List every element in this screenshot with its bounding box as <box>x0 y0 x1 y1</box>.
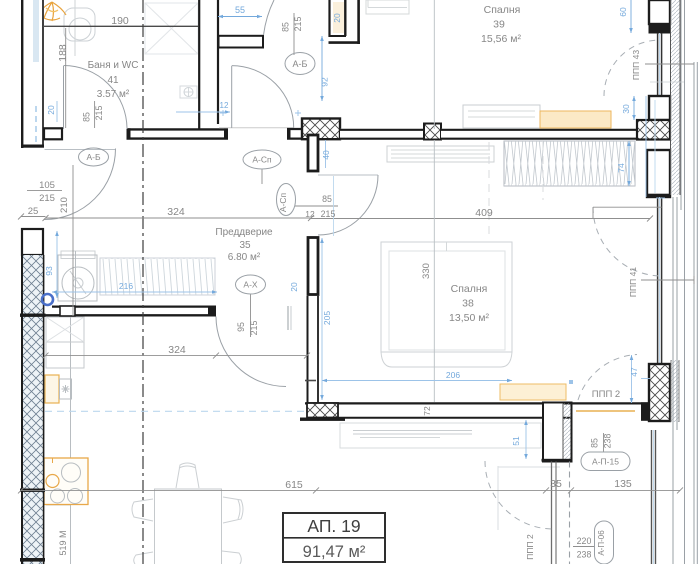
svg-text:А-Сп: А-Сп <box>278 192 288 212</box>
crosshatch column at x302 <box>302 119 340 140</box>
ellipse А-Сп vertical <box>277 184 296 216</box>
svg-text:85: 85 <box>82 112 92 122</box>
bedroom38 wardrobe outline <box>504 141 635 186</box>
A-Sp leader <box>261 169 263 184</box>
dim 330 construction line <box>433 0 435 129</box>
blue door viewer symbol <box>42 294 53 305</box>
bedroom39 dresser bottom <box>463 105 540 128</box>
svg-text:324: 324 <box>167 206 185 218</box>
blue dim 205 <box>321 238 323 400</box>
blue dim 93 <box>56 231 58 298</box>
chair right <box>223 497 243 523</box>
corridor wall x198-219 <box>198 0 219 129</box>
utility shelf <box>61 251 95 259</box>
svg-text:3.57 м²: 3.57 м² <box>97 89 130 100</box>
threshold line across door B opening <box>219 127 294 129</box>
blue dim 216 utility <box>52 291 217 293</box>
blue dim 20 top-left of bath door <box>56 101 58 122</box>
svg-text:20: 20 <box>46 105 56 115</box>
svg-text:95: 95 <box>236 322 246 332</box>
living corner faint lines <box>497 466 499 530</box>
tag line 85/238 <box>603 433 605 452</box>
svg-text:190: 190 <box>111 15 129 27</box>
bathroom door leaf + arc <box>63 66 65 129</box>
orange flower top-left <box>40 2 66 21</box>
svg-text:330: 330 <box>421 263 432 279</box>
blue dashed utility line <box>45 410 306 412</box>
svg-text:Спалня: Спалня <box>484 4 521 16</box>
right bay: crosshatch block bottom <box>649 364 670 421</box>
dim 409 line <box>311 218 650 220</box>
utility grille <box>100 258 215 295</box>
dim 188 line <box>65 28 67 128</box>
vent shaft X-box <box>145 3 198 54</box>
svg-text:205: 205 <box>322 311 332 325</box>
dim 324 #1 line <box>46 217 312 219</box>
bedroom38 bed <box>381 242 512 352</box>
svg-text:215: 215 <box>321 209 336 219</box>
long wall mid segment <box>340 129 425 140</box>
svg-text:206: 206 <box>446 370 460 380</box>
bedroom39 radiator orange <box>540 111 611 128</box>
svg-text:238: 238 <box>603 434 613 449</box>
kitchen counter line <box>75 251 77 305</box>
blue window dims right bay <box>645 96 647 197</box>
tag fraction 85/215 door C <box>295 205 338 207</box>
L-wall top corridor right <box>329 0 361 44</box>
svg-text:ППП 2: ППП 2 <box>592 389 620 400</box>
bedroom39 desk top <box>366 0 409 14</box>
right bay: wall block bedroom38 top <box>647 150 670 197</box>
bedroom38 desk <box>387 146 494 162</box>
svg-text:215: 215 <box>94 106 104 121</box>
blue dim 60 <box>630 0 632 33</box>
svg-text:215: 215 <box>293 17 303 32</box>
svg-text:ППП 43: ППП 43 <box>631 50 641 80</box>
svg-text:72: 72 <box>422 406 432 416</box>
dim 615 / 35 / 135 line <box>21 489 680 491</box>
left exterior crosshatch wall <box>20 255 46 564</box>
svg-text:12: 12 <box>305 209 315 219</box>
dim 210 line <box>72 165 74 316</box>
chair left <box>132 499 153 521</box>
svg-text:60: 60 <box>618 7 628 17</box>
chair top <box>176 463 199 488</box>
tag line 85/215 top <box>293 13 295 55</box>
ellipse А-Б #2 <box>79 148 109 166</box>
kitchen sink/stove unit <box>44 458 88 505</box>
upper door frame wall x218-264 <box>219 36 264 48</box>
svg-text:85: 85 <box>322 194 332 204</box>
svg-text:12: 12 <box>220 101 229 110</box>
svg-text:38: 38 <box>462 298 474 310</box>
right bay: black bar <box>649 24 671 34</box>
svg-text:А-Б: А-Б <box>86 152 101 162</box>
svg-text:215: 215 <box>249 321 259 336</box>
svg-text:85: 85 <box>281 22 291 32</box>
blue dim 40 <box>325 140 327 168</box>
window bottom-right living <box>652 430 656 564</box>
blue dimension numbers <box>44 5 639 446</box>
door arcs <box>45 0 379 387</box>
svg-text:Спалня: Спалня <box>451 283 488 295</box>
blue dim 74 <box>628 141 630 186</box>
ellipse А-П-15 <box>581 452 630 471</box>
svg-text:20: 20 <box>332 13 342 23</box>
svg-text:210: 210 <box>59 197 70 213</box>
svg-text:6.80 м²: 6.80 м² <box>228 252 261 263</box>
svg-text:А-Б: А-Б <box>293 59 308 69</box>
short line right top <box>650 81 684 83</box>
lower-right wall block <box>542 403 573 462</box>
L-wall orange column fill <box>333 2 346 33</box>
ellipse А-Б #1 <box>79 53 631 564</box>
svg-text:91,47 м²: 91,47 м² <box>303 543 366 561</box>
right bay: fine hatch strips beside blocks <box>671 360 679 422</box>
svg-text:А-П-15: А-П-15 <box>592 457 619 467</box>
svg-text:92: 92 <box>320 77 330 87</box>
balcony door ППП2 dashed swing <box>578 355 637 401</box>
svg-text:85: 85 <box>590 438 600 448</box>
dining table <box>155 489 222 564</box>
interior wall x307 stub A (black) <box>308 135 318 171</box>
corridor top door B leaf + arc <box>231 66 233 128</box>
svg-text:Преддверие: Преддверие <box>215 227 273 238</box>
svg-text:25: 25 <box>28 206 39 217</box>
wall below block thin <box>552 462 570 564</box>
door tags gray <box>82 17 642 560</box>
blue dimension lines <box>42 0 665 459</box>
svg-text:35: 35 <box>550 478 562 490</box>
blue dot near radiator <box>569 380 573 384</box>
apartment label box <box>283 513 385 562</box>
tag fraction 105/215 <box>27 190 62 192</box>
blue dim 12 corridor <box>176 111 230 113</box>
svg-text:47: 47 <box>629 367 639 377</box>
long wall right segment <box>441 129 637 140</box>
right bay: wall block top <box>649 0 670 24</box>
ellipse А-Х <box>236 275 266 294</box>
svg-text:188: 188 <box>57 44 69 62</box>
right bay: wall block mid <box>649 96 670 120</box>
leader ППП41 <box>641 279 694 281</box>
svg-text:39: 39 <box>493 19 505 31</box>
crosshatch block south wall left <box>300 403 345 421</box>
tag line 85/215 bath <box>94 101 96 128</box>
svg-text:615: 615 <box>285 479 303 491</box>
blue dim 92 <box>321 36 323 101</box>
washing machine <box>58 255 97 301</box>
dim 324 #2 line <box>46 355 308 357</box>
left exterior wall upper block <box>21 0 44 148</box>
blue dim 206 bed <box>322 380 512 382</box>
kitchen cabinet <box>46 317 84 368</box>
top small arc A <box>264 0 275 35</box>
door C leaf + arc <box>318 174 378 176</box>
orange kitchen tall unit <box>45 375 59 403</box>
blue dim 47 <box>631 355 633 403</box>
svg-text:А-Х: А-Х <box>243 280 258 290</box>
south wall band living/bedroom38 <box>305 402 649 419</box>
svg-text:324: 324 <box>168 344 186 356</box>
long wall segment right of door B <box>287 128 311 140</box>
door D arc <box>216 317 286 387</box>
tag fraction 220/238 <box>573 546 594 548</box>
living sideboard <box>340 423 541 448</box>
bathroom sink <box>180 86 197 98</box>
left wall block below entrance <box>22 229 43 255</box>
south wall black jamb right <box>641 402 650 421</box>
svg-text:Баня и WC: Баня и WC <box>88 60 139 71</box>
svg-text:135: 135 <box>614 478 632 490</box>
svg-text:216: 216 <box>119 281 133 291</box>
glazing dash inside left wall <box>35 106 37 144</box>
svg-text:93: 93 <box>44 266 54 276</box>
blue dim 51 <box>525 420 527 459</box>
center axis dash-dot line <box>142 0 144 564</box>
svg-text:АП. 19: АП. 19 <box>307 516 360 536</box>
bathroom top wall line + 190 dim <box>43 25 199 27</box>
svg-text:238: 238 <box>577 550 592 560</box>
hall bottom wall <box>46 306 217 317</box>
svg-text:А-П-06: А-П-06 <box>597 530 606 556</box>
svg-text:15,56 м²: 15,56 м² <box>481 33 521 45</box>
dim 25 line <box>21 216 46 218</box>
facade/terrace vertical lines right edge <box>673 0 697 564</box>
leader ППП43 <box>645 63 694 65</box>
balcony threshold orange line <box>576 410 635 412</box>
interior wall x307 stub B (black) <box>308 238 318 295</box>
bathroom bottom wall right block <box>127 128 229 139</box>
window 41 dashed swing <box>593 207 662 276</box>
bathroom bottom wall left block <box>44 128 62 139</box>
bedroom38 radiator orange <box>500 384 566 400</box>
door D right jamb stub <box>287 306 289 330</box>
svg-text:20: 20 <box>289 282 299 292</box>
svg-text:35: 35 <box>239 240 251 251</box>
svg-text:220: 220 <box>577 536 592 546</box>
svg-text:ППП 2: ППП 2 <box>525 534 535 560</box>
blue dim 55 <box>218 16 262 18</box>
svg-text:А-Сп: А-Сп <box>252 155 272 165</box>
blue dim 30 <box>633 96 635 120</box>
svg-text:105: 105 <box>39 180 55 191</box>
svg-text:ППП 41: ППП 41 <box>628 267 638 297</box>
right bay: fine hatch strip <box>671 0 681 195</box>
svg-text:41: 41 <box>107 75 119 86</box>
svg-text:519 М: 519 М <box>58 530 68 555</box>
svg-text:51: 51 <box>511 436 521 446</box>
window 43 dashed swing <box>604 40 660 96</box>
chair bottom partials <box>134 552 153 564</box>
right bay: window 43 <box>658 33 662 96</box>
svg-text:409: 409 <box>475 207 493 219</box>
svg-text:13,50 м²: 13,50 м² <box>449 312 489 324</box>
room labels <box>88 4 621 400</box>
svg-text:40: 40 <box>321 150 331 160</box>
toilet top-left <box>64 8 95 41</box>
bedroom38 centerline dashes <box>488 142 490 238</box>
svg-text:55: 55 <box>235 5 245 15</box>
balcony threshold orange line (over wall) <box>576 410 635 412</box>
svg-text:215: 215 <box>39 193 55 204</box>
blue ticks near window 41 top <box>641 378 650 380</box>
right bay: crosshatch block <box>637 120 670 140</box>
ellipse А-Сп horizontal <box>243 150 281 169</box>
kitchen small box with burner <box>60 379 72 399</box>
interior wall x307 lower white part <box>307 296 320 403</box>
blue tick marks door B <box>220 110 301 116</box>
svg-text:30: 30 <box>621 104 631 114</box>
dashed swing arcs <box>485 40 662 529</box>
ellipse А-П-06 <box>595 521 614 564</box>
balcony lower dashed swing <box>485 461 553 529</box>
tag line 95/215 + A-X leader <box>250 294 252 337</box>
entrance door leaf + arc <box>45 149 116 151</box>
small crosshatch column at x424 <box>424 124 441 140</box>
right bay: window 41 <box>658 197 662 364</box>
svg-text:74: 74 <box>616 163 626 173</box>
